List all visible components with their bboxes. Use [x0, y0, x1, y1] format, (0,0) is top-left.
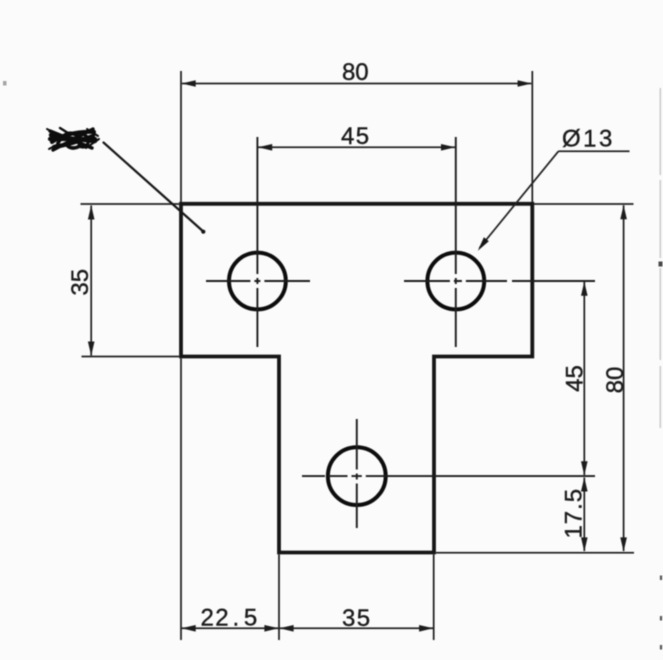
dimension 22.5 bottom: extension lines — [181, 359, 434, 641]
dimension 35 left: dimension line — [90, 206, 92, 356]
dimension 35 left: extension lines — [81, 204, 180, 357]
hole bottom Ø13 — [328, 447, 386, 505]
diameter leader Ø13: diagonal leader line — [480, 151, 559, 248]
centerline vertical, bottom hole — [356, 419, 358, 528]
hole left Ø13 — [229, 253, 286, 310]
diameter leader Ø13: shoulder line — [559, 150, 630, 152]
scan artifact: right edge noise band — [659, 88, 661, 428]
centerline horizontal, right hole (also ext line of right 45 dim) — [404, 280, 595, 282]
dimension 80 top: dimension line — [182, 83, 531, 85]
svg-text:80: 80 — [602, 367, 629, 394]
dimension 80 top: extension lines — [181, 71, 532, 202]
dimension 80 right: arrowheads — [620, 205, 627, 219]
svg-text:35: 35 — [67, 269, 94, 296]
leader line from scribble to plate corner — [104, 143, 204, 232]
plate outline (T-shaped part) — [181, 204, 532, 553]
dimension 45 right: arrowheads — [581, 282, 588, 296]
svg-text:45: 45 — [341, 123, 371, 150]
dimension 45 right: dimension line — [583, 282, 585, 475]
centerline vertical, left hole (also ext line of 45 dim) — [256, 137, 258, 347]
svg-text:17.5: 17.5 — [560, 488, 587, 539]
svg-text:45: 45 — [561, 365, 588, 392]
dimension 45 top: arrowheads — [258, 144, 272, 151]
dimension 45 top: dimension line — [258, 146, 455, 148]
centerline horizontal, bottom hole (also ext line of 45/17.5 dims) — [302, 475, 595, 477]
crossed-out scribble annotation (top-left) — [47, 128, 99, 150]
dimension 22.5 bottom: dimension line — [182, 627, 434, 629]
scan artifact: lower right edge dashes — [660, 576, 662, 650]
scan artifact: left edge speck — [3, 81, 7, 86]
scan artifact: dark dash right edge — [659, 262, 663, 267]
dimension 17.5 right: dimension line — [583, 478, 585, 552]
dimension 35 bottom: arrowheads — [279, 625, 293, 632]
hole right Ø13 — [427, 253, 484, 310]
centerline vertical, right hole — [455, 137, 457, 347]
diameter leader Ø13: arrowhead at hole edge — [478, 237, 489, 251]
dimension 80 right: extension lines — [436, 204, 634, 553]
svg-text:Ø13: Ø13 — [562, 125, 615, 152]
dimension 80 top: arrowheads — [182, 80, 196, 87]
dimension 80 right: dimension line — [623, 205, 625, 551]
svg-text:80: 80 — [342, 59, 369, 86]
dimension 35 left: arrowheads — [88, 205, 95, 219]
centerline horizontal, left hole — [206, 280, 310, 282]
dimension 22.5 bottom: arrowheads — [182, 625, 196, 632]
svg-text:35: 35 — [342, 605, 372, 632]
dimension 17.5 right: arrowheads — [581, 477, 588, 491]
